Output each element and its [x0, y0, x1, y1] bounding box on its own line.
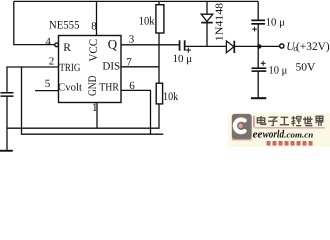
svg-text:5: 5 [45, 78, 51, 90]
svg-text:1: 1 [92, 102, 98, 114]
svg-text:4: 4 [45, 36, 51, 48]
svg-text:Cvolt: Cvolt [58, 82, 82, 94]
svg-text:ee: ee [253, 129, 263, 141]
svg-text:6: 6 [129, 80, 135, 92]
svg-text:VCC: VCC [88, 38, 100, 61]
svg-text:2: 2 [49, 56, 55, 68]
svg-text:3: 3 [129, 34, 135, 46]
svg-text:10k: 10k [163, 91, 178, 103]
svg-text:TRIG: TRIG [59, 62, 80, 74]
svg-text:world: world [263, 129, 285, 141]
svg-text:10 μ: 10 μ [173, 53, 193, 65]
svg-text:10 μ: 10 μ [266, 17, 285, 29]
svg-text:Q: Q [108, 37, 118, 52]
svg-text:(+32V): (+32V) [296, 41, 330, 53]
svg-text:10 μ: 10 μ [269, 64, 288, 76]
svg-text:10k: 10k [139, 16, 155, 28]
svg-text:R: R [63, 42, 71, 54]
svg-text:THR: THR [99, 81, 119, 93]
svg-text:7: 7 [126, 57, 132, 69]
svg-text:50V: 50V [296, 61, 316, 73]
svg-text:.com.cn: .com.cn [284, 129, 313, 139]
svg-text:DIS: DIS [102, 61, 120, 73]
svg-text:GND: GND [87, 76, 99, 96]
svg-text:8: 8 [91, 21, 97, 33]
svg-text:1N4148: 1N4148 [215, 3, 226, 41]
svg-text:NE555: NE555 [49, 20, 80, 32]
